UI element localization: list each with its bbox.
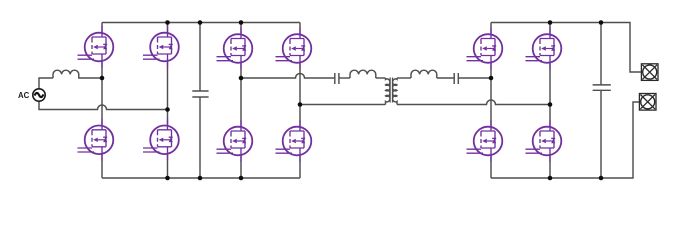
svg-text:AC: AC [18, 91, 30, 100]
